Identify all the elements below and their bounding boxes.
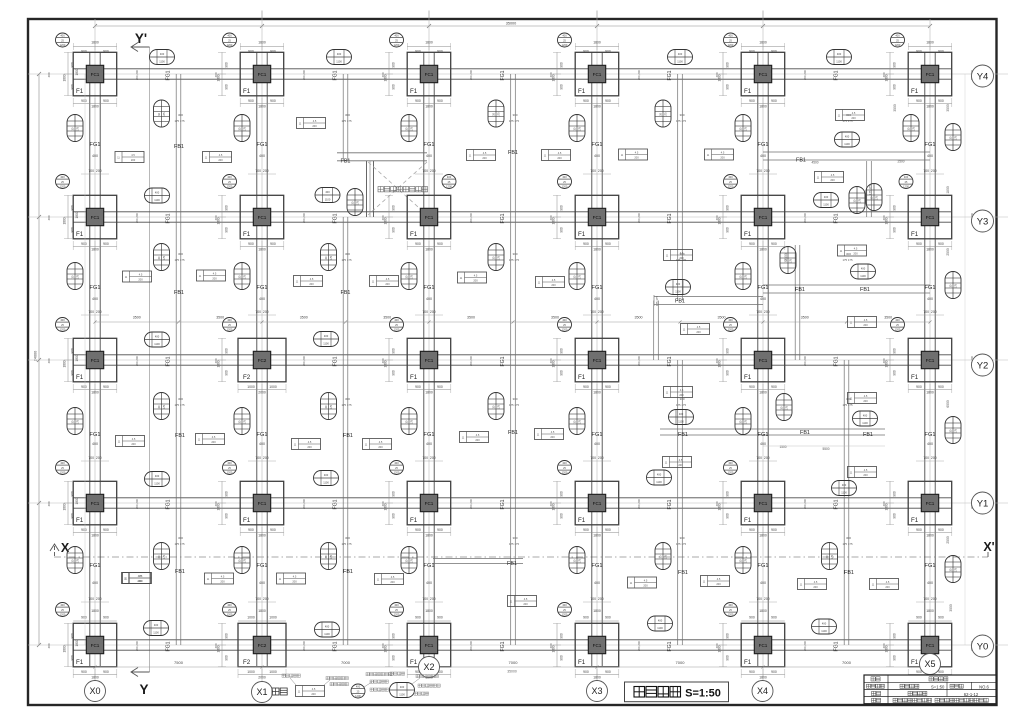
- pile symbol (circle) 18: [891, 318, 905, 332]
- svg-text:1800: 1800: [759, 609, 767, 613]
- svg-text:1800: 1800: [593, 609, 601, 613]
- svg-text:F1: F1: [243, 88, 251, 95]
- pile symbol (circle) 19: [56, 461, 70, 475]
- svg-text:700 200: 700 200: [923, 456, 936, 460]
- svg-text:400: 400: [760, 442, 766, 446]
- pile symbol (horizontal oval) 11: [666, 280, 691, 295]
- section arrow Y' (top left): [131, 31, 150, 52]
- pile symbol (vertical oval) 31: [488, 244, 504, 271]
- svg-text:900: 900: [415, 528, 421, 532]
- grid bubble Y4: [972, 65, 994, 87]
- label FG1 on X0 band 4: [90, 563, 101, 569]
- svg-text:200,200: 200,200: [637, 70, 641, 81]
- svg-text:900: 900: [916, 385, 922, 389]
- pile symbol (horizontal oval) 2: [327, 50, 352, 65]
- dim 700 200 on X2 band 2: [415, 310, 443, 315]
- svg-text:400: 400: [549, 643, 553, 648]
- pile symbol (circle) 2: [223, 33, 237, 47]
- svg-text:200,200: 200,200: [302, 499, 306, 510]
- rotated dim 400 near X0,Y3: [47, 215, 51, 220]
- svg-text:175 175: 175 175: [174, 403, 185, 407]
- rotated dim 200 200 near X2,Y2: [469, 356, 473, 367]
- svg-text:900: 900: [392, 205, 396, 211]
- svg-text:FG1: FG1: [925, 563, 936, 569]
- dim 700 200 on X1 band 4: [248, 597, 276, 602]
- rotated dim 400 near X1,Y4: [214, 72, 218, 77]
- label FB1 at (849,572): [844, 570, 854, 576]
- svg-text:700 200: 700 200: [756, 310, 769, 314]
- column FC1 at X4,Y2: [754, 351, 771, 368]
- svg-text:900: 900: [71, 227, 75, 233]
- footing F1 at X3,Y3: [575, 195, 619, 239]
- svg-text:4.5: 4.5: [814, 580, 818, 584]
- svg-text:4.5: 4.5: [483, 151, 487, 155]
- svg-text:900: 900: [938, 528, 944, 532]
- dim 300 / 175 175 near FB1 mid-bay band 2: [676, 252, 687, 262]
- svg-text:1800: 1800: [926, 248, 934, 252]
- svg-text:4.5: 4.5: [697, 325, 701, 329]
- svg-text:175: 175: [579, 126, 582, 131]
- svg-text:900: 900: [392, 633, 396, 639]
- svg-text:175 175: 175 175: [341, 403, 352, 407]
- slab tag box 4: [542, 150, 571, 161]
- svg-text:1800: 1800: [759, 391, 767, 395]
- svg-text:400: 400: [728, 175, 733, 179]
- svg-text:1200: 1200: [562, 613, 568, 617]
- svg-text:200: 200: [885, 585, 890, 589]
- svg-text:FG1: FG1: [834, 356, 840, 366]
- svg-text:F1: F1: [744, 88, 752, 95]
- grid bubble Y0: [972, 635, 994, 657]
- svg-text:400: 400: [895, 34, 900, 38]
- svg-text:FB1: FB1: [678, 570, 688, 576]
- pile symbol (vertical oval) 16: [401, 408, 417, 435]
- svg-text:FG1: FG1: [90, 432, 101, 438]
- svg-text:175 175: 175 175: [174, 542, 185, 546]
- svg-text:900: 900: [938, 50, 944, 54]
- pile symbol (vertical oval) 10: [401, 263, 417, 290]
- grid bubble X0: [85, 681, 106, 702]
- label FG1 on X5 band 1: [925, 142, 936, 148]
- foundation beam FB1 bay X4-X5 row1 (horizontal): [763, 152, 930, 160]
- svg-text:1800: 1800: [593, 534, 601, 538]
- pile symbol (horizontal oval) 21: [648, 616, 673, 631]
- label FG1 on X4 band 2: [758, 285, 769, 291]
- pile symbol (vertical oval) 24: [735, 547, 751, 574]
- svg-text:1100: 1100: [323, 342, 329, 346]
- footing side dimension left of X5,Y4: [885, 52, 897, 95]
- footing F2 at X1,Y0: [238, 623, 286, 667]
- pile symbol (vertical oval) 12: [735, 263, 751, 290]
- svg-text:FG1: FG1: [592, 432, 603, 438]
- label FG1 on X1 band 4: [257, 563, 268, 569]
- pile symbol (horizontal oval) 12: [851, 264, 876, 279]
- svg-text:200: 200: [212, 277, 217, 281]
- svg-text:900: 900: [938, 670, 944, 674]
- rotated dim 200 200 near X2,Y0: [469, 641, 473, 652]
- svg-text:400: 400: [549, 215, 553, 220]
- rotated label FG1 on row Y2 mid-bay: [500, 356, 506, 366]
- svg-text:X3: X3: [591, 686, 602, 696]
- svg-text:900: 900: [270, 99, 276, 103]
- svg-text:F1: F1: [911, 374, 919, 381]
- slab tag box 34: [628, 577, 657, 588]
- svg-text:400: 400: [927, 581, 933, 585]
- footing dimension below X4,Y3: [741, 241, 785, 252]
- pile symbol (vertical oval) 43: [776, 394, 792, 421]
- label F1 at X5,Y0: [911, 659, 919, 666]
- label FB1 at (180,435): [175, 433, 185, 439]
- svg-text:FG1: FG1: [834, 70, 840, 80]
- svg-text:400: 400: [227, 603, 232, 607]
- footing dimension below X3,Y2: [575, 384, 619, 395]
- label F1 at X2,Y4: [410, 88, 418, 95]
- svg-text:F1: F1: [410, 517, 418, 524]
- svg-text:175 175: 175 175: [676, 119, 687, 123]
- svg-text:900: 900: [225, 62, 229, 68]
- rotated dim 400 near X3,Y2: [549, 358, 553, 363]
- column FC1 at X2,Y0: [420, 636, 437, 653]
- label FB1 at (683,434): [678, 432, 688, 438]
- svg-text:4.5: 4.5: [831, 173, 835, 177]
- svg-text:900: 900: [103, 528, 109, 532]
- svg-text:1100: 1100: [154, 342, 160, 346]
- foundation beam FG1 along column X2: [424, 52, 434, 666]
- label FG1 on X2 band 3: [424, 432, 435, 438]
- svg-text:700 200: 700 200: [255, 169, 268, 173]
- svg-text:FG1: FG1: [257, 142, 268, 148]
- column FC1 at X3,Y3: [588, 208, 605, 225]
- svg-text:1100: 1100: [678, 420, 684, 424]
- dim 700 200 on X3 band 2: [583, 310, 611, 315]
- pile symbol (vertical oval) 37: [655, 543, 671, 570]
- svg-text:900: 900: [437, 528, 443, 532]
- label FB1 at (805,432): [800, 430, 810, 436]
- dim 700 200 on X3 band 4: [583, 597, 611, 602]
- svg-text:900: 900: [225, 633, 229, 639]
- svg-text:900: 900: [583, 385, 589, 389]
- rotated dim 400 near X1,Y0: [214, 643, 218, 648]
- svg-text:200: 200: [378, 445, 383, 449]
- svg-text:400: 400: [927, 154, 933, 158]
- svg-text:400: 400: [400, 685, 405, 689]
- svg-text:200: 200: [220, 580, 225, 584]
- rotated dim 400 near X5,Y3: [882, 215, 886, 220]
- pile symbol (circle) 4: [558, 33, 572, 47]
- footing dimension below X5,Y3: [908, 241, 952, 252]
- svg-text:4.5: 4.5: [132, 437, 136, 441]
- svg-text:900: 900: [726, 227, 730, 233]
- svg-text:F2: F2: [243, 659, 251, 666]
- slab tag box 17: [838, 245, 867, 256]
- rotated label FG1 on row Y4 mid-bay: [166, 70, 172, 80]
- svg-text:900: 900: [938, 242, 944, 246]
- dim 400 on X3 band 2: [594, 297, 600, 301]
- slab tag box 35: [701, 576, 730, 587]
- svg-text:4.5: 4.5: [474, 273, 478, 277]
- dim 400 on X1 band 1: [259, 154, 265, 158]
- grid bubble Y3: [972, 210, 994, 232]
- svg-text:F1: F1: [911, 659, 919, 666]
- svg-text:200: 200: [851, 116, 856, 120]
- svg-text:200: 200: [138, 579, 143, 583]
- label F1 at X1,Y1: [243, 517, 251, 524]
- footing F1 at X2,Y3: [407, 195, 451, 239]
- svg-text:900: 900: [726, 491, 730, 497]
- svg-text:900: 900: [583, 99, 589, 103]
- svg-text:200: 200: [309, 282, 314, 286]
- svg-text:175: 175: [357, 200, 360, 205]
- footing dimension below X3,Y0: [575, 669, 619, 680]
- svg-text:F1: F1: [410, 88, 418, 95]
- footing F1 at X1,Y4: [240, 52, 284, 96]
- svg-text:1200: 1200: [895, 328, 901, 332]
- slab tag box 15: [536, 277, 565, 288]
- svg-text:200: 200: [551, 283, 556, 287]
- rotated dim 200 200 near X5,Y1: [970, 499, 974, 510]
- svg-text:200,200: 200,200: [469, 70, 473, 81]
- dim 300 / 175 175 near FB1 mid-bay band 1: [174, 113, 185, 123]
- grid line Y0 (horizontal): [28, 644, 1008, 646]
- footing side dimension left of X4,Y2: [718, 338, 730, 381]
- svg-text:7000: 7000: [509, 660, 519, 665]
- svg-text:900: 900: [225, 655, 229, 661]
- svg-text:400: 400: [760, 154, 766, 158]
- footing side dimension left of X0,Y3: [63, 195, 75, 238]
- svg-text:400: 400: [822, 622, 827, 626]
- foundation beam FG1 along row Y3: [73, 212, 951, 222]
- svg-text:900: 900: [771, 670, 777, 674]
- svg-text:400: 400: [47, 72, 51, 77]
- pile symbol (circle) 20: [223, 461, 237, 475]
- rotated dim 400 near X1,Y3: [214, 215, 218, 220]
- svg-text:X5: X5: [924, 659, 935, 669]
- footing side dimension left of X5,Y0: [885, 623, 897, 666]
- rotated dim 200 200 near X3,Y4: [637, 70, 641, 81]
- label FB1 at (868,434): [863, 432, 873, 438]
- footing F1 at X0,Y3: [73, 195, 117, 239]
- svg-text:200: 200: [211, 440, 216, 444]
- svg-text:FG1: FG1: [500, 213, 506, 223]
- svg-text:200: 200: [863, 473, 868, 477]
- svg-text:900: 900: [560, 62, 564, 68]
- grid line Y2 (horizontal): [28, 359, 1008, 361]
- svg-text:300: 300: [345, 252, 350, 256]
- svg-text:175: 175: [77, 558, 80, 563]
- svg-text:400: 400: [259, 442, 265, 446]
- dim 400 on X3 band 1: [594, 154, 600, 158]
- svg-text:400: 400: [394, 461, 399, 465]
- foundation beam FG1 along column X0: [90, 52, 100, 666]
- rotated dim 400 near X0,Y1: [47, 501, 51, 506]
- rotated label FG1 on row Y4 mid-bay: [500, 70, 506, 80]
- footing F1 at X0,Y1: [73, 481, 117, 525]
- grid bubble Y1: [972, 492, 994, 514]
- pile symbol (vertical oval) 11: [569, 263, 585, 290]
- pile symbol (horizontal oval) 4: [827, 50, 852, 65]
- svg-text:400: 400: [882, 501, 886, 506]
- svg-text:4.5: 4.5: [308, 440, 312, 444]
- pile symbol (vertical oval) 27: [488, 100, 504, 127]
- svg-text:400: 400: [715, 643, 719, 648]
- footing dimension below X4,Y0: [741, 669, 785, 680]
- svg-text:1800: 1800: [759, 534, 767, 538]
- svg-text:200: 200: [720, 156, 725, 160]
- slab tag box 14: [458, 272, 487, 283]
- svg-text:400: 400: [155, 335, 160, 339]
- pile symbol (vertical oval) 9: [234, 263, 250, 290]
- svg-text:400: 400: [863, 414, 868, 418]
- svg-text:200: 200: [385, 282, 390, 286]
- svg-text:175: 175: [498, 404, 501, 409]
- svg-text:175 175: 175 175: [341, 542, 352, 546]
- svg-text:1100: 1100: [323, 481, 329, 485]
- label FG1 on X4 band 3: [758, 432, 769, 438]
- svg-text:400: 400: [904, 175, 909, 179]
- svg-text:FB1: FB1: [795, 287, 805, 293]
- rotated dim 400 near X2,Y4: [381, 72, 385, 77]
- pile symbol (circle) 16: [558, 318, 572, 332]
- svg-text:900: 900: [437, 242, 443, 246]
- rotated dim 200 200 near X4,Y0: [803, 641, 807, 652]
- label FG1 on X2 band 4: [424, 563, 435, 569]
- svg-text:3500: 3500: [893, 104, 897, 112]
- dim 400 on X4 band 2: [760, 297, 766, 301]
- dim 400 on X4 band 4: [760, 581, 766, 585]
- rotated label FG1 on row Y0 mid-bay: [500, 641, 506, 651]
- footing dimension above X3,Y4: [575, 41, 618, 54]
- footing dimension above X3,Y0: [575, 609, 619, 621]
- section line X-X' (horizontal, dash-dot): [54, 556, 988, 558]
- svg-text:900: 900: [560, 84, 564, 90]
- svg-text:1800: 1800: [75, 211, 79, 218]
- svg-text:175: 175: [411, 419, 414, 424]
- elevator pit wall (vertical): [367, 161, 374, 217]
- svg-text:400: 400: [657, 473, 662, 477]
- footing side dimension left of X2,Y0: [384, 623, 396, 666]
- svg-text:900: 900: [726, 348, 730, 354]
- footing dimension above X5,Y4: [908, 41, 951, 54]
- svg-text:1800: 1800: [759, 105, 767, 109]
- svg-text:1800: 1800: [75, 497, 79, 504]
- svg-text:1200: 1200: [728, 613, 734, 617]
- svg-text:700 200: 700 200: [923, 597, 936, 601]
- svg-text:400: 400: [259, 154, 265, 158]
- dim 300 / 175 175 near FB1 mid-bay band 4: [509, 536, 520, 546]
- svg-text:FG1: FG1: [667, 70, 673, 80]
- rotated dim 400 near X2,Y3: [381, 215, 385, 220]
- dim 300 / 175 175 near FB1 mid-bay band 4: [341, 536, 352, 546]
- svg-text:F1: F1: [410, 374, 418, 381]
- footing side dimension left of X5,Y2: [885, 338, 897, 381]
- rotated dim 200 200 near X5,Y4: [970, 70, 974, 81]
- svg-text:900: 900: [938, 99, 944, 103]
- svg-text:FB1: FB1: [863, 432, 873, 438]
- svg-text:900: 900: [726, 655, 730, 661]
- pile symbol (horizontal oval) 13: [145, 472, 170, 487]
- footing dimension below X0,Y4: [73, 98, 117, 109]
- svg-text:400: 400: [60, 461, 65, 465]
- footing dimension above X1,Y4: [240, 41, 283, 54]
- svg-text:400: 400: [728, 461, 733, 465]
- svg-text:4.5: 4.5: [552, 278, 556, 282]
- svg-text:700 200: 700 200: [422, 310, 435, 314]
- rotated dim 400 near X5,Y1: [882, 501, 886, 506]
- rotated dim 200 200 near X5,Y3: [970, 213, 974, 224]
- footing F1 at X1,Y1: [240, 481, 284, 525]
- rotated dim 400 near X3,Y3: [549, 215, 553, 220]
- svg-text:FB1: FB1: [343, 569, 353, 575]
- svg-text:1800: 1800: [63, 74, 67, 81]
- svg-text:400: 400: [381, 501, 385, 506]
- svg-text:X1: X1: [256, 687, 267, 697]
- svg-text:1000: 1000: [247, 616, 255, 620]
- svg-text:1200: 1200: [60, 471, 66, 475]
- pile symbol (horizontal oval) 19: [144, 621, 169, 636]
- rotated dim 400 near X2,Y1: [381, 501, 385, 506]
- pile symbol (vertical oval) 23: [569, 547, 585, 574]
- svg-text:900: 900: [893, 655, 897, 661]
- label F1 at X4,Y4: [744, 88, 752, 95]
- svg-text:1200: 1200: [895, 43, 901, 47]
- footing dimension below X2,Y2: [407, 384, 451, 395]
- legend pile circle sample: [351, 673, 392, 699]
- pile symbol (horizontal oval) 16: [832, 481, 857, 496]
- svg-text:FC1: FC1: [91, 643, 100, 648]
- svg-text:900: 900: [392, 370, 396, 376]
- svg-text:1200: 1200: [60, 185, 66, 189]
- rotated dim 400 near X5,Y2: [882, 358, 886, 363]
- svg-text:200,200: 200,200: [469, 213, 473, 224]
- label FB1 at (179,292): [174, 290, 184, 296]
- svg-text:400: 400: [60, 34, 65, 38]
- column FC1 at X0,Y2: [86, 351, 103, 368]
- svg-text:400: 400: [882, 358, 886, 363]
- slab tag box 22: [292, 439, 321, 450]
- svg-text:900: 900: [225, 205, 229, 211]
- svg-text:900: 900: [415, 616, 421, 620]
- label F2 at X1,Y0: [243, 659, 251, 666]
- svg-text:300: 300: [345, 113, 350, 117]
- foundation beam FB1 mid-bay X1-X2 upper segment: [343, 74, 348, 161]
- svg-text:FG1: FG1: [925, 285, 936, 291]
- footing dimension below X3,Y3: [575, 241, 619, 252]
- label FB1 at (348,435): [343, 433, 353, 439]
- foundation beam FB1 bay X3-X4 band2 (horizontal): [654, 295, 763, 306]
- svg-text:1200: 1200: [355, 694, 361, 698]
- svg-text:3500: 3500: [946, 104, 950, 112]
- label F1 at X2,Y3: [410, 231, 418, 238]
- svg-text:900: 900: [583, 50, 589, 54]
- svg-text:900: 900: [560, 227, 564, 233]
- rotated label FG1 on row Y1 mid-bay: [333, 499, 339, 509]
- svg-text:400: 400: [715, 72, 719, 77]
- slab tag box 21: [196, 434, 225, 445]
- footing F1 at X3,Y0: [575, 623, 619, 667]
- svg-text:FC1: FC1: [926, 72, 935, 77]
- rotated dim 200 200 near X0,Y0: [135, 641, 139, 652]
- footing side dimension left of X0,Y4: [63, 52, 75, 95]
- svg-text:200: 200: [863, 323, 868, 327]
- grid bubble X4: [752, 681, 773, 702]
- footing side dimension left of X1,Y2: [217, 338, 229, 381]
- svg-text:300: 300: [512, 252, 517, 256]
- svg-text:900: 900: [938, 385, 944, 389]
- svg-text:FB1: FB1: [800, 430, 810, 436]
- svg-text:1100: 1100: [336, 60, 342, 64]
- svg-text:F1: F1: [76, 88, 84, 95]
- svg-text:2500: 2500: [784, 253, 788, 261]
